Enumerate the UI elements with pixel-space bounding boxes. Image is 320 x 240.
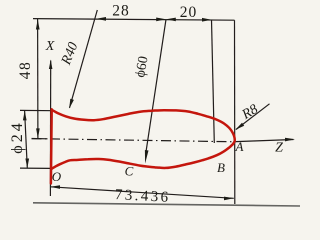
scan artifact line at bottom edge <box>33 203 300 206</box>
arrow Z axis (right) <box>285 138 295 142</box>
top dimension line <box>33 19 235 21</box>
extension line right end of 20 <box>212 20 215 143</box>
svg-text:O: O <box>52 169 62 184</box>
arrow R8 leader tip <box>235 123 244 130</box>
svg-text:B: B <box>217 160 225 175</box>
svg-text:28: 28 <box>112 2 130 19</box>
center line / Z axis (dash-dot) <box>32 139 237 142</box>
dimension line 73.436 <box>50 187 234 199</box>
svg-text:ϕ24: ϕ24 <box>9 120 26 153</box>
center line tick (left end of axis) <box>32 138 48 140</box>
svg-text:48: 48 <box>17 61 34 80</box>
part contour (red) <box>51 109 235 183</box>
arrow R40 leader tip <box>69 99 74 109</box>
arrow 48 bottom (down) <box>36 128 40 138</box>
left end face (red vertical) <box>50 109 53 183</box>
arrow 73.436 left <box>50 185 60 189</box>
extension line slanted for R40 / left end of 28 <box>70 10 98 108</box>
arrow 28 right <box>156 18 166 22</box>
arrow 48 top (up) <box>36 19 40 29</box>
arrow phi24 top (up) <box>23 111 27 121</box>
arrow 20 right <box>202 18 212 22</box>
extension line phi24 top <box>20 109 54 111</box>
svg-text:X: X <box>45 39 55 54</box>
dimension line 48 (vertical) <box>37 19 39 139</box>
extension line right end of 73.436 <box>234 20 236 204</box>
top profile: R40 waist then phi60 ball, R8 tip, bottom profile back to O <box>51 110 234 169</box>
arrow 73.436 right <box>224 197 234 201</box>
arrow 28 left <box>96 17 106 21</box>
arrow X axis (up) <box>49 60 53 70</box>
svg-text:A: A <box>235 139 244 154</box>
leader line R8 <box>236 104 270 130</box>
svg-text:Z: Z <box>275 141 283 156</box>
arrow 20 left <box>166 18 176 22</box>
arrow phi24 bottom (down) <box>25 159 29 169</box>
svg-text:20: 20 <box>180 4 198 21</box>
X axis line <box>49 61 51 197</box>
extension line phi24 bottom <box>20 167 50 169</box>
arrow phi60 leader tip at C <box>145 150 149 164</box>
dimension line phi24 (vertical) <box>25 111 28 169</box>
Z axis solid segment <box>236 140 294 142</box>
svg-text:C: C <box>125 164 134 179</box>
extension line slanted for phi60 / between 28 and 20 <box>146 19 166 150</box>
